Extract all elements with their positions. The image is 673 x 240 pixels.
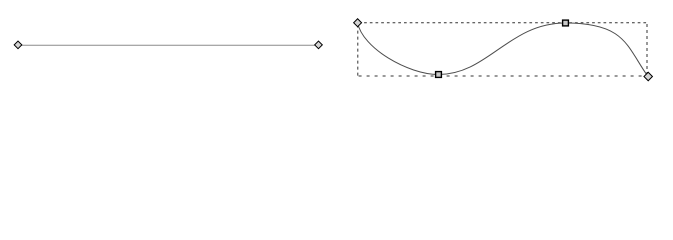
selection bounding box (dashed): bottom edge (358, 75, 647, 77)
selection bounding box (dashed): top edge (358, 22, 647, 24)
node: upper square control point (563, 20, 569, 26)
selection bounding box (dashed): right edge (646, 23, 648, 76)
wire: straight line segment (18, 44, 319, 46)
node: bottom-right diamond endpoint of curve (644, 72, 652, 80)
selection bounding box (dashed): left edge (357, 23, 359, 76)
node: right diamond handle of straight line (315, 41, 323, 49)
wire: bezier S-curve (358, 23, 648, 77)
node: left diamond handle of straight line (14, 41, 22, 49)
node: lower square control point (436, 72, 442, 78)
node: top-left diamond endpoint of curve (354, 19, 362, 27)
